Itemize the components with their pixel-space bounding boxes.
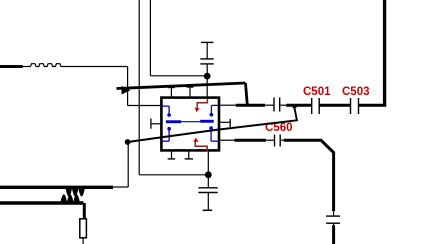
- annotation arrow (red) bottom inside box: [193, 138, 207, 152]
- wire: thin to series capacitor: [265, 104, 274, 106]
- node: junction dot below box: [205, 171, 212, 178]
- resistor R (unlabeled, box symbol): [80, 219, 87, 238]
- capacitor: box-bottom ground stub 2: [185, 152, 193, 159]
- capacitor (unlabeled) plates above top node: [200, 58, 213, 60]
- wire: from inductor L to corner at x=127.6: [61, 66, 128, 68]
- wire: thin lead from input stub to inductor L (top-left): [23, 66, 31, 68]
- wire: vertical from diagonal node down x=128.6: [127, 142, 129, 187]
- wire: bold vertical riser x=384.6 to top edge: [383, 0, 386, 107]
- wire: bold elbow down to resistor R: [83, 203, 86, 219]
- wire: bold segment C503 to right riser: [359, 104, 385, 107]
- wire: vertical drop x=127.6 from y=66.5 to y=105.5: [127, 67, 129, 106]
- wire: thin horizontal y=187 to bold line end: [113, 186, 128, 188]
- capacitor: box-left plate symbol: [151, 118, 161, 128]
- wire: bold segment to bottom edge: [332, 225, 335, 244]
- transformer T winding bumps on upper line: [66, 189, 85, 197]
- wire: bold highlighted segment y=105.2: [236, 104, 265, 107]
- wire: thin stem to bottom-right capacitor: [333, 211, 335, 216]
- capacitor (unlabeled) above box: open terminal bar: [201, 41, 214, 43]
- wire: thin after capacitor: [280, 104, 287, 106]
- wire: thin to C560: [266, 139, 275, 141]
- wire: horizontal y=75.8 to top node: [150, 75, 207, 77]
- filter box U1 (ceramic filter outline): [161, 98, 219, 151]
- annotation: bold signal-path stroke (top) with arrowhead: [117, 83, 248, 105]
- wire: horizontal into filter box left pin (y=105.5): [128, 105, 161, 107]
- wire: from box bottom pin down to node: [207, 152, 209, 175]
- wire: vertical bus x=150.4 from top edge: [149, 0, 151, 76]
- wire: bold segment y=140.2: [234, 139, 266, 142]
- wire: bold input stub at left edge: [0, 65, 23, 68]
- svg-text:C501: C501: [303, 86, 331, 98]
- annotation: bold signal-path diagonal through box: [128, 107, 297, 142]
- resonator element (blue) inside box: coupling line: [181, 121, 200, 123]
- capacitor: box-top feedthrough stub 1: [168, 87, 175, 97]
- wire: horizontal y=174.8 from x=139.2 to node below box: [139, 174, 208, 176]
- inductor L (top-left, square-bump coil): [31, 64, 61, 67]
- transformer T winding bumps on lower line: [61, 194, 80, 202]
- wire: stem from top node down to box top edge: [206, 76, 208, 96]
- annotation arrow (red) top inside box: [195, 98, 208, 112]
- node: junction dot at diagonal start: [125, 139, 131, 145]
- capacitor (unlabeled) series at x=277: [274, 98, 280, 112]
- capacitor C560: [275, 135, 281, 147]
- svg-text:C503: C503: [342, 86, 370, 98]
- capacitor C501: [312, 98, 320, 114]
- wire: thin below resistor to bottom edge: [82, 238, 84, 244]
- wire: thin from box right pin y=140.2 to bold segment: [220, 139, 234, 141]
- wire: bold lower-left line 1 (transformer primary): [0, 186, 113, 189]
- node: junction blob where diagonal meets bus: [292, 104, 297, 109]
- capacitor: box-right plate symbol: [220, 119, 231, 128]
- capacitor: box-bottom ground stub 1: [168, 152, 175, 159]
- node: top junction dot: [204, 73, 211, 80]
- wire: long vertical bus x=139.2 from top edge down: [138, 0, 140, 175]
- wire: stem from terminal bar to capacitor top plate: [206, 42, 208, 59]
- wire: bold lower-left line 2 (transformer secondary): [0, 201, 84, 204]
- wire: thin from box right pin y=105.2: [220, 104, 235, 106]
- wire: bold segment C501 to C503: [319, 104, 350, 107]
- capacitor: box-top feedthrough stub 2: [187, 86, 194, 96]
- resonator element (blue) inside box: left electrode network: [162, 106, 182, 141]
- wire: bold segment then beveled corner down: [284, 140, 334, 211]
- capacitor C503: [351, 98, 359, 114]
- wire: thin stem below capacitor: [333, 223, 335, 225]
- resonator element (blue) inside box: right electrode network: [200, 105, 219, 141]
- wire: thin after C560: [280, 139, 284, 141]
- capacitor (unlabeled) below box: [198, 175, 217, 211]
- capacitor (unlabeled) bottom-right: [326, 216, 340, 223]
- wire: bold segment to C501: [286, 104, 312, 107]
- wire: stem from capacitor bottom plate to top node: [206, 64, 208, 76]
